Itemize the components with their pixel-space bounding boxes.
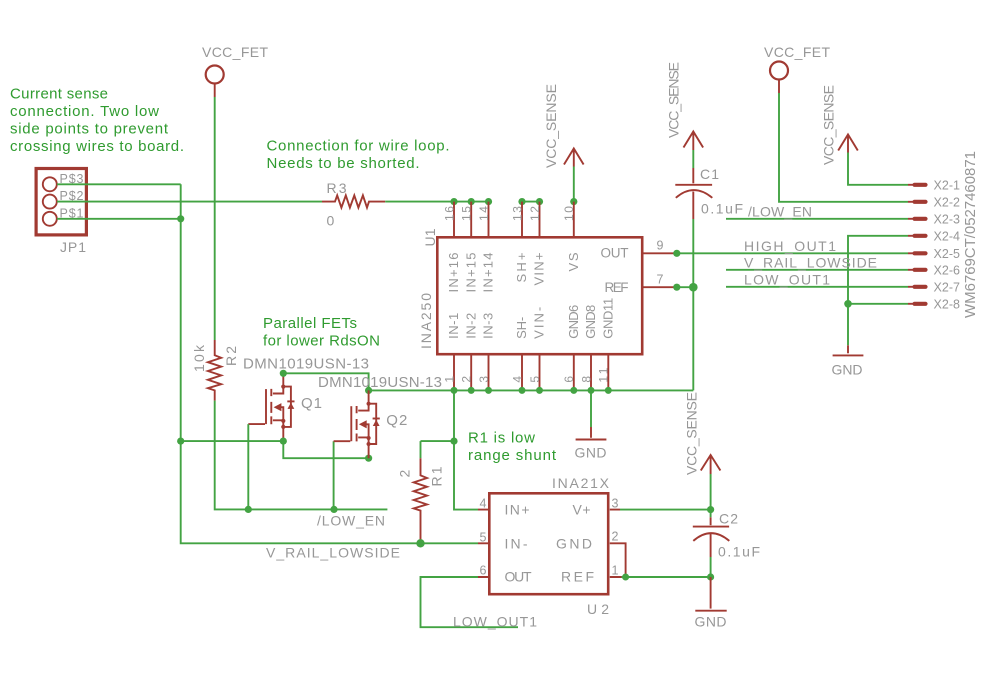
node pin8 bbox=[588, 387, 595, 394]
U1 pin names top bbox=[446, 252, 581, 292]
node REF/pin2 bbox=[622, 574, 629, 581]
wire X2-8 bbox=[848, 303, 908, 305]
wire R2 to /LOW_EN row bbox=[215, 401, 388, 510]
svg-text:C1: C1 bbox=[700, 166, 719, 182]
svg-text:/LOW_EN: /LOW_EN bbox=[317, 513, 385, 529]
svg-text:6: 6 bbox=[562, 376, 576, 383]
supply VCC_FET right bbox=[764, 44, 830, 93]
svg-text:GND: GND bbox=[575, 445, 607, 461]
svg-text:4: 4 bbox=[510, 376, 524, 383]
node C2 bottom bbox=[707, 573, 714, 580]
node pin3 bbox=[485, 387, 492, 394]
svg-text:INA21X: INA21X bbox=[552, 475, 610, 491]
svg-text:VS: VS bbox=[566, 252, 581, 271]
svg-text:VCC_FET: VCC_FET bbox=[764, 44, 830, 60]
wire REF pin7 link bbox=[677, 286, 694, 288]
node pin6 bbox=[570, 387, 577, 394]
U1 pin numbers right bbox=[657, 239, 664, 287]
node REF junction bbox=[689, 283, 698, 292]
svg-text:Current sense: Current sense bbox=[10, 86, 108, 103]
svg-text:DMN1019USN-13: DMN1019USN-13 bbox=[318, 374, 442, 391]
svg-text:GND11: GND11 bbox=[600, 298, 615, 339]
ground symbol right bbox=[832, 345, 864, 377]
svg-text:Parallel FETs: Parallel FETs bbox=[263, 315, 357, 332]
U1 pin numbers top bbox=[442, 206, 576, 221]
svg-text:VIN-: VIN- bbox=[532, 307, 547, 339]
svg-text:REF: REF bbox=[605, 280, 629, 295]
svg-text:SH-: SH- bbox=[514, 317, 529, 339]
connector X2-2 pin bbox=[908, 196, 960, 210]
node pin9 bbox=[673, 250, 680, 257]
svg-text:GND: GND bbox=[695, 614, 727, 630]
svg-text:Q1: Q1 bbox=[301, 395, 322, 412]
node pin10 bbox=[570, 198, 577, 205]
svg-text:13: 13 bbox=[510, 206, 524, 221]
svg-text:15: 15 bbox=[460, 206, 474, 221]
node low-side/Q1 source branch bbox=[177, 438, 184, 445]
wire R1 top link bbox=[421, 441, 455, 458]
node pin14 bbox=[485, 198, 492, 205]
svg-text:REF: REF bbox=[561, 569, 594, 585]
node pin7 bbox=[673, 284, 680, 291]
node Q1 drain bbox=[280, 370, 287, 377]
U1 pin names bottom bbox=[446, 298, 615, 339]
wire R3 to U1 inputs bbox=[385, 201, 488, 203]
svg-text:INA250: INA250 bbox=[418, 293, 434, 349]
svg-text:R2: R2 bbox=[223, 346, 239, 366]
node Q2 source bbox=[365, 455, 372, 462]
svg-text:4: 4 bbox=[480, 497, 487, 511]
svg-text:R1: R1 bbox=[429, 466, 445, 486]
svg-text:Needs to be shorted.: Needs to be shorted. bbox=[267, 155, 420, 172]
IC U2 INA21X bbox=[480, 475, 619, 617]
wire VCC_SENSE to X2-1 bbox=[848, 153, 908, 185]
svg-text:8: 8 bbox=[579, 376, 593, 383]
svg-text:VCC_SENSE: VCC_SENSE bbox=[684, 392, 700, 475]
svg-text:X2-1: X2-1 bbox=[934, 179, 961, 193]
node R1 bottom bbox=[416, 539, 424, 547]
svg-text:Q2: Q2 bbox=[386, 412, 407, 429]
svg-text:X2-5: X2-5 bbox=[934, 247, 961, 261]
svg-text:C2: C2 bbox=[719, 511, 738, 527]
wire P$1 bbox=[57, 218, 181, 220]
svg-text:IN+16: IN+16 bbox=[446, 253, 461, 293]
svg-text:2: 2 bbox=[397, 470, 413, 478]
node pin11 bbox=[605, 387, 612, 394]
svg-text:GND6: GND6 bbox=[566, 305, 581, 339]
svg-text:IN-1: IN-1 bbox=[446, 313, 461, 339]
transistor Q2 bbox=[334, 390, 408, 458]
node Q2 drain bbox=[365, 387, 372, 394]
supply VCC_SENSE arrow 3 bbox=[821, 85, 858, 165]
node Q1 source bbox=[280, 438, 287, 445]
svg-text:0.1uF: 0.1uF bbox=[718, 544, 760, 560]
svg-text:7: 7 bbox=[657, 273, 664, 287]
svg-text:IN-2: IN-2 bbox=[463, 313, 478, 339]
svg-text:2: 2 bbox=[612, 530, 619, 544]
svg-text:VCC_FET: VCC_FET bbox=[202, 44, 268, 60]
node pin12 bbox=[536, 198, 543, 205]
wire Q2 gate to /LOW_EN bbox=[333, 441, 335, 509]
svg-text:LOW_OUT1: LOW_OUT1 bbox=[744, 271, 830, 287]
wire VCC_SENSE to V+ row bbox=[710, 474, 712, 510]
node pin5 bbox=[536, 387, 543, 394]
svg-text:10k: 10k bbox=[191, 344, 207, 372]
U1 right pins bbox=[644, 253, 674, 287]
connector X2-3 pin bbox=[908, 213, 960, 227]
svg-text:range shunt: range shunt bbox=[468, 447, 557, 464]
resistor R3 bbox=[322, 180, 385, 229]
wire to Q1 source bbox=[181, 440, 284, 442]
svg-text:1: 1 bbox=[442, 376, 456, 383]
connector X2-5 pin bbox=[908, 247, 960, 261]
wire V+ to C2 bbox=[620, 509, 711, 511]
svg-text:0.1uF: 0.1uF bbox=[701, 201, 743, 217]
svg-text:R1 is low: R1 is low bbox=[468, 429, 535, 446]
U2 left pins bbox=[478, 510, 489, 577]
svg-text:X2-2: X2-2 bbox=[934, 196, 961, 210]
svg-text:X2-6: X2-6 bbox=[934, 264, 961, 278]
wire VCC_FET to R2 bbox=[214, 97, 216, 340]
svg-text:GND: GND bbox=[832, 362, 863, 378]
svg-text:V_RAIL_LOWSIDE: V_RAIL_LOWSIDE bbox=[266, 545, 400, 561]
wire V_RAIL_LOWSIDE to X2-6 bbox=[726, 269, 908, 271]
node pin13 bbox=[518, 198, 525, 205]
transistor Q1 bbox=[248, 373, 322, 441]
svg-text:X2-3: X2-3 bbox=[934, 213, 961, 227]
svg-text:OUT: OUT bbox=[601, 246, 629, 261]
svg-text:X2-8: X2-8 bbox=[934, 298, 961, 312]
wire Q1 drain to Q2 drain bbox=[283, 373, 368, 390]
node pin4 bbox=[519, 387, 526, 394]
svg-text:V_RAIL_LOWSIDE: V_RAIL_LOWSIDE bbox=[744, 254, 877, 270]
svg-text:HIGH_OUT1: HIGH_OUT1 bbox=[744, 238, 836, 254]
svg-text:14: 14 bbox=[477, 206, 491, 221]
svg-text:X2-7: X2-7 bbox=[934, 281, 961, 295]
svg-text:1: 1 bbox=[612, 564, 619, 578]
wire Q1 source to Q2 source bbox=[283, 441, 368, 458]
supply VCC_FET left bbox=[202, 44, 268, 97]
svg-text:DMN1019USN-13: DMN1019USN-13 bbox=[243, 356, 369, 373]
svg-text:10: 10 bbox=[562, 206, 576, 221]
U2 right pins bbox=[610, 510, 622, 577]
wire U1 bottom bus bbox=[369, 389, 694, 391]
svg-text:VIN+: VIN+ bbox=[532, 253, 547, 286]
wire shunt node to U2 IN+ bbox=[454, 390, 478, 509]
node pin2 bbox=[468, 387, 475, 394]
wire vertical low-side rail bbox=[181, 184, 478, 543]
wire OUT pin9 to X2-5 bbox=[677, 252, 908, 254]
U1 pin names right bbox=[601, 246, 629, 295]
capacitor C2 bbox=[693, 510, 760, 577]
wire P$3 to vertical rail bbox=[57, 183, 181, 185]
connector X2-1 pin bbox=[908, 179, 960, 193]
note: R1 is low range shunt bbox=[468, 429, 557, 464]
U1 pin numbers bottom bbox=[442, 367, 610, 382]
ground symbol below C2 bbox=[695, 577, 727, 630]
connector JP1 bbox=[36, 169, 86, 256]
node Q2 gate bbox=[330, 506, 337, 513]
wire U2 OUT / LOW_OUT1 stub bbox=[421, 577, 519, 627]
supply VCC_SENSE arrow 4 bbox=[684, 392, 721, 475]
U1 bottom pins bbox=[454, 356, 608, 391]
note: parallel FETs bbox=[263, 315, 380, 350]
svg-text:5: 5 bbox=[528, 376, 542, 383]
svg-text:V+: V+ bbox=[573, 502, 591, 518]
node pin16 bbox=[450, 198, 457, 205]
svg-text:IN+15: IN+15 bbox=[463, 253, 478, 293]
svg-text:IN-3: IN-3 bbox=[481, 313, 496, 339]
note: current sense connection bbox=[10, 86, 184, 156]
svg-text:VCC_SENSE: VCC_SENSE bbox=[543, 84, 559, 168]
wire VCC_FET to X2-2 bbox=[779, 93, 908, 202]
svg-text:16: 16 bbox=[442, 206, 456, 221]
resistor R2 bbox=[191, 340, 239, 401]
svg-text:VCC_SENSE: VCC_SENSE bbox=[666, 62, 682, 138]
svg-text:3: 3 bbox=[612, 497, 619, 511]
wire pin10 to VCC_SENSE bbox=[573, 167, 575, 202]
supply VCC_SENSE arrow 2 bbox=[666, 62, 704, 150]
svg-text:X2-4: X2-4 bbox=[934, 230, 961, 244]
wire Q1 gate to /LOW_EN bbox=[247, 424, 249, 509]
wire LOW_OUT1 to X2-7 bbox=[726, 286, 908, 288]
connector X2-6 pin bbox=[908, 264, 960, 278]
svg-text:11: 11 bbox=[597, 367, 611, 382]
svg-text:WM6769CT/0527460871: WM6769CT/0527460871 bbox=[962, 151, 979, 318]
svg-text:/LOW_EN: /LOW_EN bbox=[748, 203, 812, 219]
svg-text:GND8: GND8 bbox=[583, 305, 598, 339]
svg-text:side points to prevent: side points to prevent bbox=[10, 121, 169, 138]
wire P$2 to R3 bbox=[57, 201, 322, 203]
svg-text:IN+: IN+ bbox=[505, 502, 530, 518]
svg-text:OUT: OUT bbox=[505, 569, 532, 585]
svg-text:0: 0 bbox=[327, 213, 335, 229]
svg-text:crossing wires to board.: crossing wires to board. bbox=[10, 138, 184, 155]
wire VCC_SENSE to C1 bbox=[692, 150, 694, 168]
svg-text:9: 9 bbox=[657, 239, 664, 253]
U2 GND pin2 route bbox=[610, 543, 626, 577]
node pin15 bbox=[468, 198, 475, 205]
svg-text:U1: U1 bbox=[422, 228, 438, 246]
svg-text:VCC_SENSE: VCC_SENSE bbox=[821, 85, 837, 165]
svg-text:SH+: SH+ bbox=[514, 253, 529, 283]
connector X2-4 pin bbox=[908, 230, 960, 244]
capacitor C1 bbox=[675, 166, 743, 219]
svg-text:connection. Two low: connection. Two low bbox=[10, 103, 159, 120]
svg-text:GND: GND bbox=[556, 535, 592, 551]
svg-text:2: 2 bbox=[460, 376, 474, 383]
ground symbol below U1 bbox=[575, 390, 607, 460]
node X2-8 branch bbox=[844, 300, 852, 308]
svg-text:12: 12 bbox=[528, 206, 542, 221]
node P$1 junction bbox=[177, 215, 184, 222]
supply VCC_SENSE arrow 1 bbox=[543, 84, 584, 168]
connector X2-8 pin bbox=[908, 298, 960, 312]
wire pins 13-12 bbox=[522, 201, 540, 203]
node Q1 gate bbox=[245, 506, 252, 513]
svg-text:6: 6 bbox=[480, 564, 487, 578]
node V+/C2 bbox=[707, 506, 714, 513]
wire REF/GND vertical bbox=[692, 219, 694, 390]
svg-text:IN-: IN- bbox=[505, 535, 528, 551]
node R1 top bbox=[450, 438, 457, 445]
note: connection for wire loop bbox=[267, 137, 450, 172]
svg-text:5: 5 bbox=[480, 530, 487, 544]
IC U1 INA250 bbox=[418, 228, 642, 354]
svg-text:IN+14: IN+14 bbox=[481, 253, 496, 293]
svg-text:3: 3 bbox=[477, 376, 491, 383]
svg-text:LOW_OUT1: LOW_OUT1 bbox=[453, 614, 537, 630]
node pin1 bbox=[451, 387, 458, 394]
wire /LOW_EN to X2-3 bbox=[726, 218, 908, 220]
svg-text:JP1: JP1 bbox=[60, 239, 86, 255]
connector X2-7 pin bbox=[908, 281, 960, 295]
svg-text:R3: R3 bbox=[327, 180, 347, 196]
svg-text:Connection for wire loop.: Connection for wire loop. bbox=[267, 137, 450, 154]
U1 top pins bbox=[454, 202, 574, 237]
resistor R1 bbox=[397, 458, 445, 541]
wire X2-4 to GND bbox=[848, 236, 908, 345]
svg-text:for lower RdsON: for lower RdsON bbox=[263, 333, 380, 350]
wire REF to C2 bottom bbox=[622, 576, 711, 578]
